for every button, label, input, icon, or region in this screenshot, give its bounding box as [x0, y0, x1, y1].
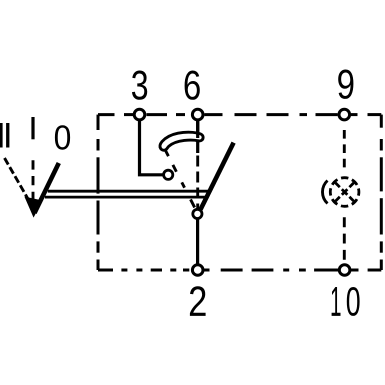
lamp (dashed circle) [330, 178, 359, 207]
lamp X diagonal 2 [335, 183, 353, 201]
label II [0, 123, 3, 148]
wire pivot to terminal 2 [196, 218, 199, 265]
switch blade [201, 143, 234, 210]
terminal 3 [134, 109, 145, 120]
label 0 [55, 125, 70, 150]
wire from terminal 3 down and right to contact [140, 120, 164, 175]
lamp X diagonal 1 [335, 183, 353, 201]
switch housing dashed box: top edge [98, 113, 381, 116]
wire from terminal 6 down (solid part) [196, 121, 199, 154]
terminal 2 [192, 265, 203, 276]
illumination arc [322, 181, 327, 204]
dashed linkage from bridge contact to pivot [165, 150, 196, 210]
label 2 [190, 286, 206, 316]
actuator rod (double line) [48, 190, 211, 193]
label 3 [132, 70, 147, 99]
position I dashed line [32, 160, 35, 199]
terminal 9 [339, 109, 350, 120]
contact circle (position II contact) [164, 170, 173, 179]
bridge contact (curved bar) [160, 132, 203, 150]
terminal 6 [192, 109, 203, 120]
dashed line terminal 6 to pivot [196, 156, 199, 209]
wire from 6 over bridge right end [196, 121, 199, 139]
position II dashed line [5, 158, 30, 202]
label 6 [185, 70, 200, 99]
label I [31, 117, 34, 139]
switch housing dashed box: left edge [97, 115, 100, 270]
switch housing dashed box: bottom edge [98, 269, 381, 272]
label 9 [338, 69, 353, 98]
arrowhead at lever vertex [25, 197, 42, 216]
switch housing dashed box: right edge [380, 115, 383, 270]
pivot circle [193, 209, 202, 218]
dashed line lamp to terminal 10 [343, 217, 346, 263]
lever [35, 163, 59, 213]
label 10 [332, 287, 341, 316]
dashed line terminal 9 to lamp [343, 130, 346, 172]
terminal 10 [339, 265, 350, 276]
